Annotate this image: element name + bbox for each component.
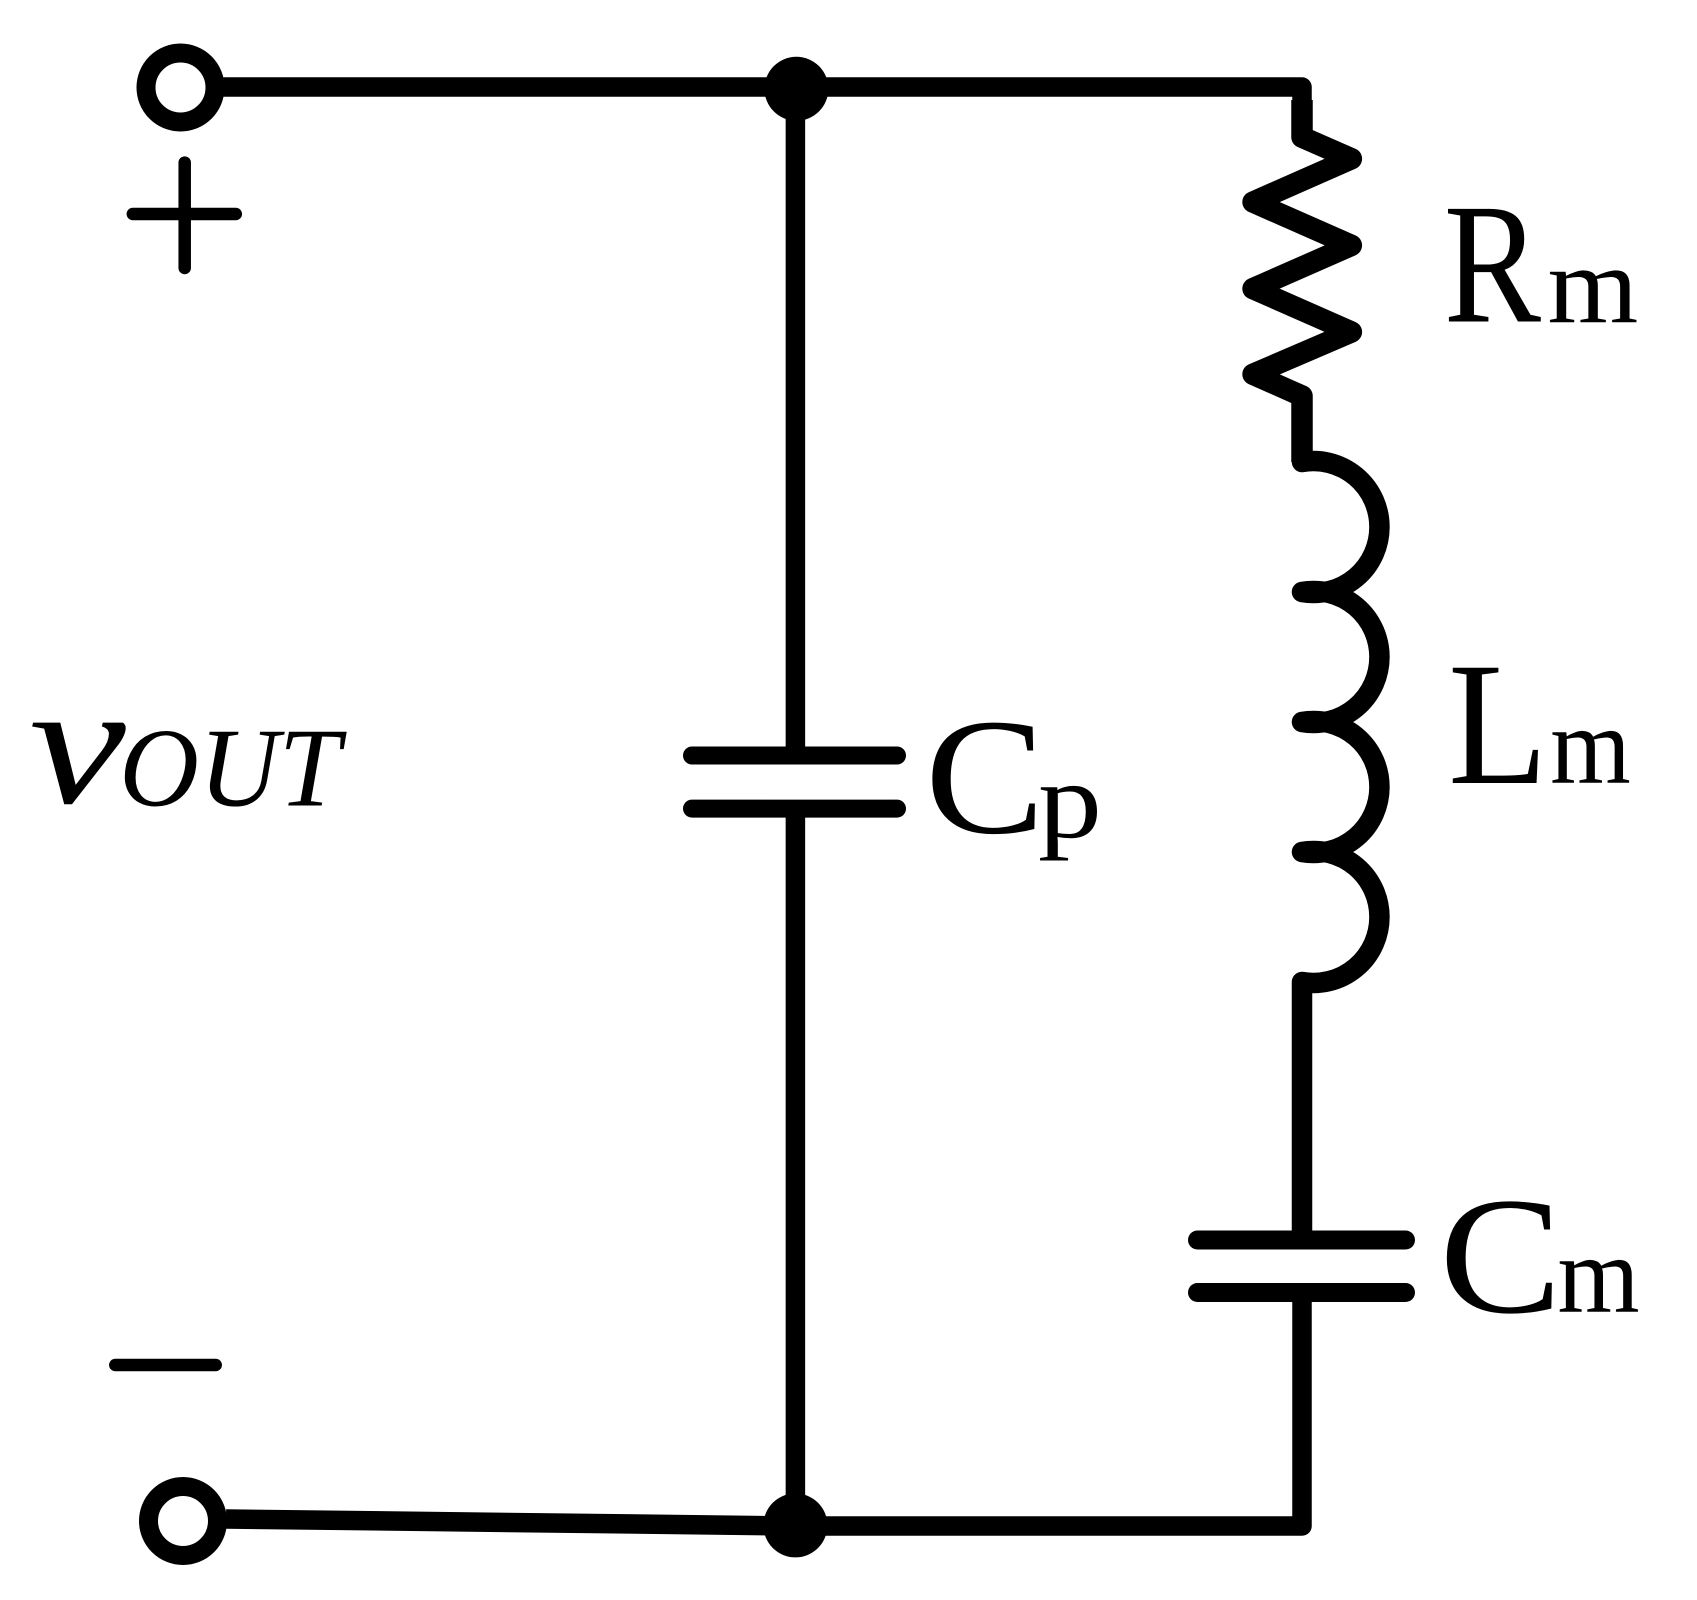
- minus sign: [115, 1359, 215, 1372]
- node top junction: [764, 57, 828, 121]
- capacitor Cp bottom plate: [692, 800, 897, 818]
- wire middle upper (junction to Cp): [786, 88, 806, 755]
- svg-text:m: m: [1558, 1214, 1640, 1336]
- plus sign: [133, 163, 236, 268]
- wire top (left terminal to right branch corner): [216, 87, 1302, 140]
- terminal top-left: [146, 53, 215, 122]
- svg-text:v: v: [29, 648, 126, 841]
- node bottom junction: [763, 1493, 827, 1557]
- wire bottom (left terminal to junction to Cm branch riser): [226, 1293, 1302, 1527]
- svg-text:C: C: [1439, 1164, 1562, 1349]
- inductor Lm: [1302, 396, 1379, 1240]
- svg-text:m: m: [1548, 225, 1639, 347]
- svg-text:p: p: [1038, 740, 1102, 861]
- svg-text:L: L: [1448, 627, 1548, 822]
- resistor Rm: [1253, 100, 1351, 462]
- terminal bottom-left: [149, 1487, 218, 1556]
- capacitor Cm bottom plate: [1198, 1283, 1406, 1302]
- capacitor Cp top plate: [692, 747, 897, 765]
- svg-text:OUT: OUT: [119, 707, 347, 831]
- capacitor Cm top plate: [1198, 1231, 1406, 1250]
- wire middle lower (Cp to bottom junction): [786, 809, 806, 1525]
- svg-text:m: m: [1550, 685, 1631, 807]
- svg-text:C: C: [925, 685, 1045, 869]
- svg-text:R: R: [1444, 170, 1541, 360]
